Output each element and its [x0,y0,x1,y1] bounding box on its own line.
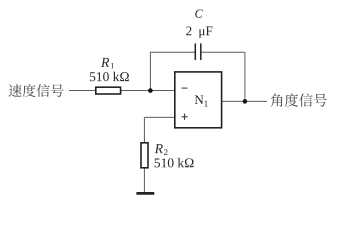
resistor R2 [141,143,148,168]
wire: R2 bottom lead to ground [143,168,145,192]
wire: non-inverting input vertical down to R2 [143,117,145,142]
label R2 [155,144,168,155]
node: output net label 角度信号 (angle signal) [271,93,327,106]
node A: junction dot on inverting input wire [148,88,153,93]
node B: junction dot on output wire [243,99,248,104]
wire: non-inverting input horizontal into op-amp [144,116,174,118]
ground [136,192,154,195]
wire: capacitor right plate to feedback right vertical [201,51,245,53]
wire: input signal lead to R1 [69,90,96,92]
resistor R1 [96,87,121,94]
wire: feedback left vertical from node A up to capacitor [149,52,151,90]
pin label: minus sign at inverting input [182,87,188,89]
label C [195,10,203,18]
wire: op-amp output to angle signal label [222,100,267,102]
pin label: plus sign at non-inverting input [181,114,187,120]
op-amp U1 (integrator block N1) [175,72,222,128]
node: input net label 速度信号 (speed signal) [9,84,64,97]
value label 2 uF of C [186,26,212,38]
wire: feedback right vertical down to output node B [244,52,246,101]
label R1 [101,58,114,68]
value label 510 kOhm of R1 [90,72,129,81]
wire: top feedback run to capacitor left plate [150,51,195,53]
capacitor C (plates) [195,43,201,60]
label N1 inside op-amp [195,95,208,106]
value label 510 kOhm of R2 [155,158,194,167]
wire: R1 to op-amp inverting input [121,90,175,92]
